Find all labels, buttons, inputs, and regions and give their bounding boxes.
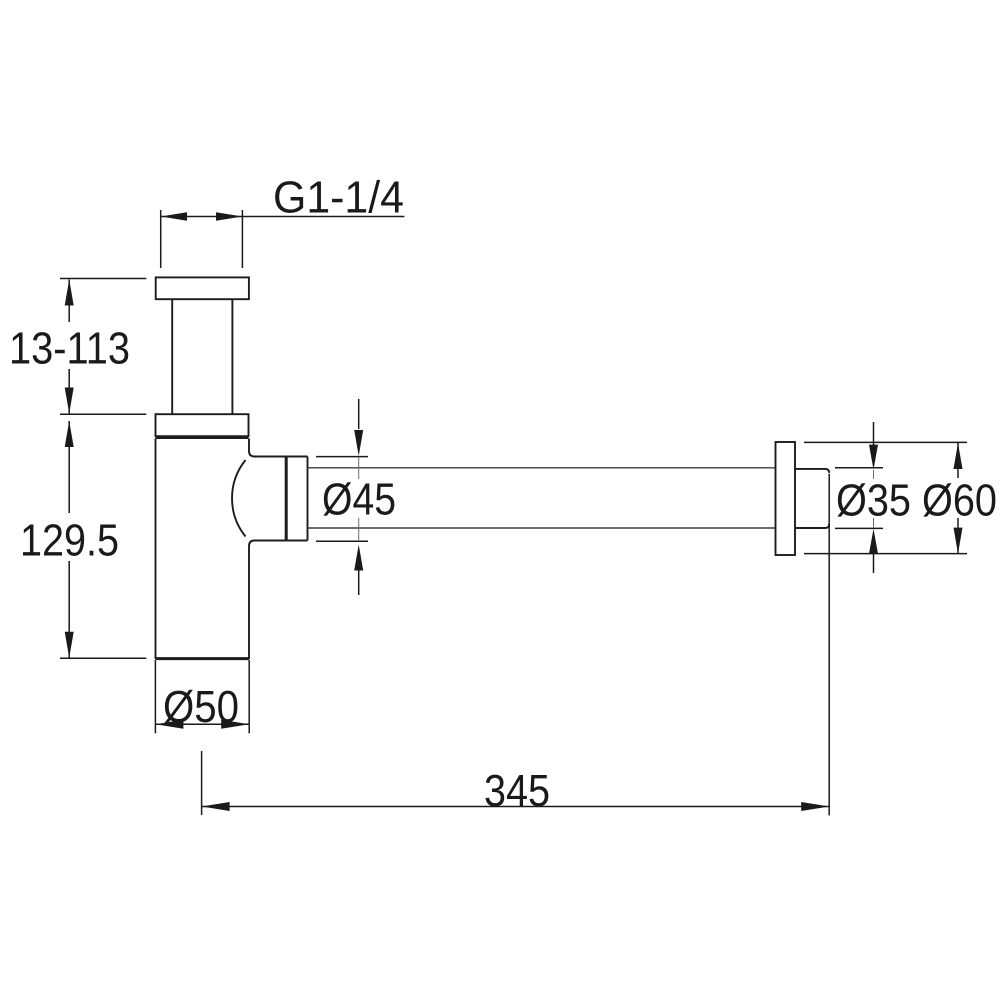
trap body (cup)	[156, 439, 250, 660]
horn inner arc	[232, 460, 245, 537]
outlet nut	[286, 457, 308, 541]
body top flange (collar)	[156, 414, 249, 436]
svg-text:G1-1/4: G1-1/4	[273, 172, 404, 223]
body thick bottom edge	[156, 657, 250, 660]
svg-text:Ø45: Ø45	[322, 474, 396, 525]
svg-text:Ø50: Ø50	[163, 681, 239, 732]
vertical inlet pipe	[172, 299, 232, 415]
wall pipe stub	[795, 469, 829, 528]
collar thick bottom edge	[156, 436, 249, 439]
svg-text:129.5: 129.5	[20, 515, 119, 566]
dimension Ø45	[316, 399, 368, 595]
outlet horn with rounded corners	[249, 451, 286, 546]
dimension Ø50	[155, 660, 249, 733]
wall flange (escutcheon)	[776, 442, 796, 555]
svg-text:345: 345	[484, 765, 550, 816]
dimension 13-113	[60, 279, 146, 415]
svg-text:Ø60: Ø60	[922, 475, 997, 526]
dimension Ø35	[835, 422, 883, 573]
dimension Ø60	[804, 442, 967, 553]
dimension G1-1/4	[161, 210, 405, 268]
svg-text:Ø35: Ø35	[836, 475, 911, 526]
top inlet flange (slip nut)	[156, 277, 249, 299]
svg-text:13-113: 13-113	[9, 323, 130, 374]
horizontal outlet pipe	[308, 468, 776, 528]
dimension 345	[202, 474, 830, 816]
dimension 129.5	[60, 421, 146, 658]
